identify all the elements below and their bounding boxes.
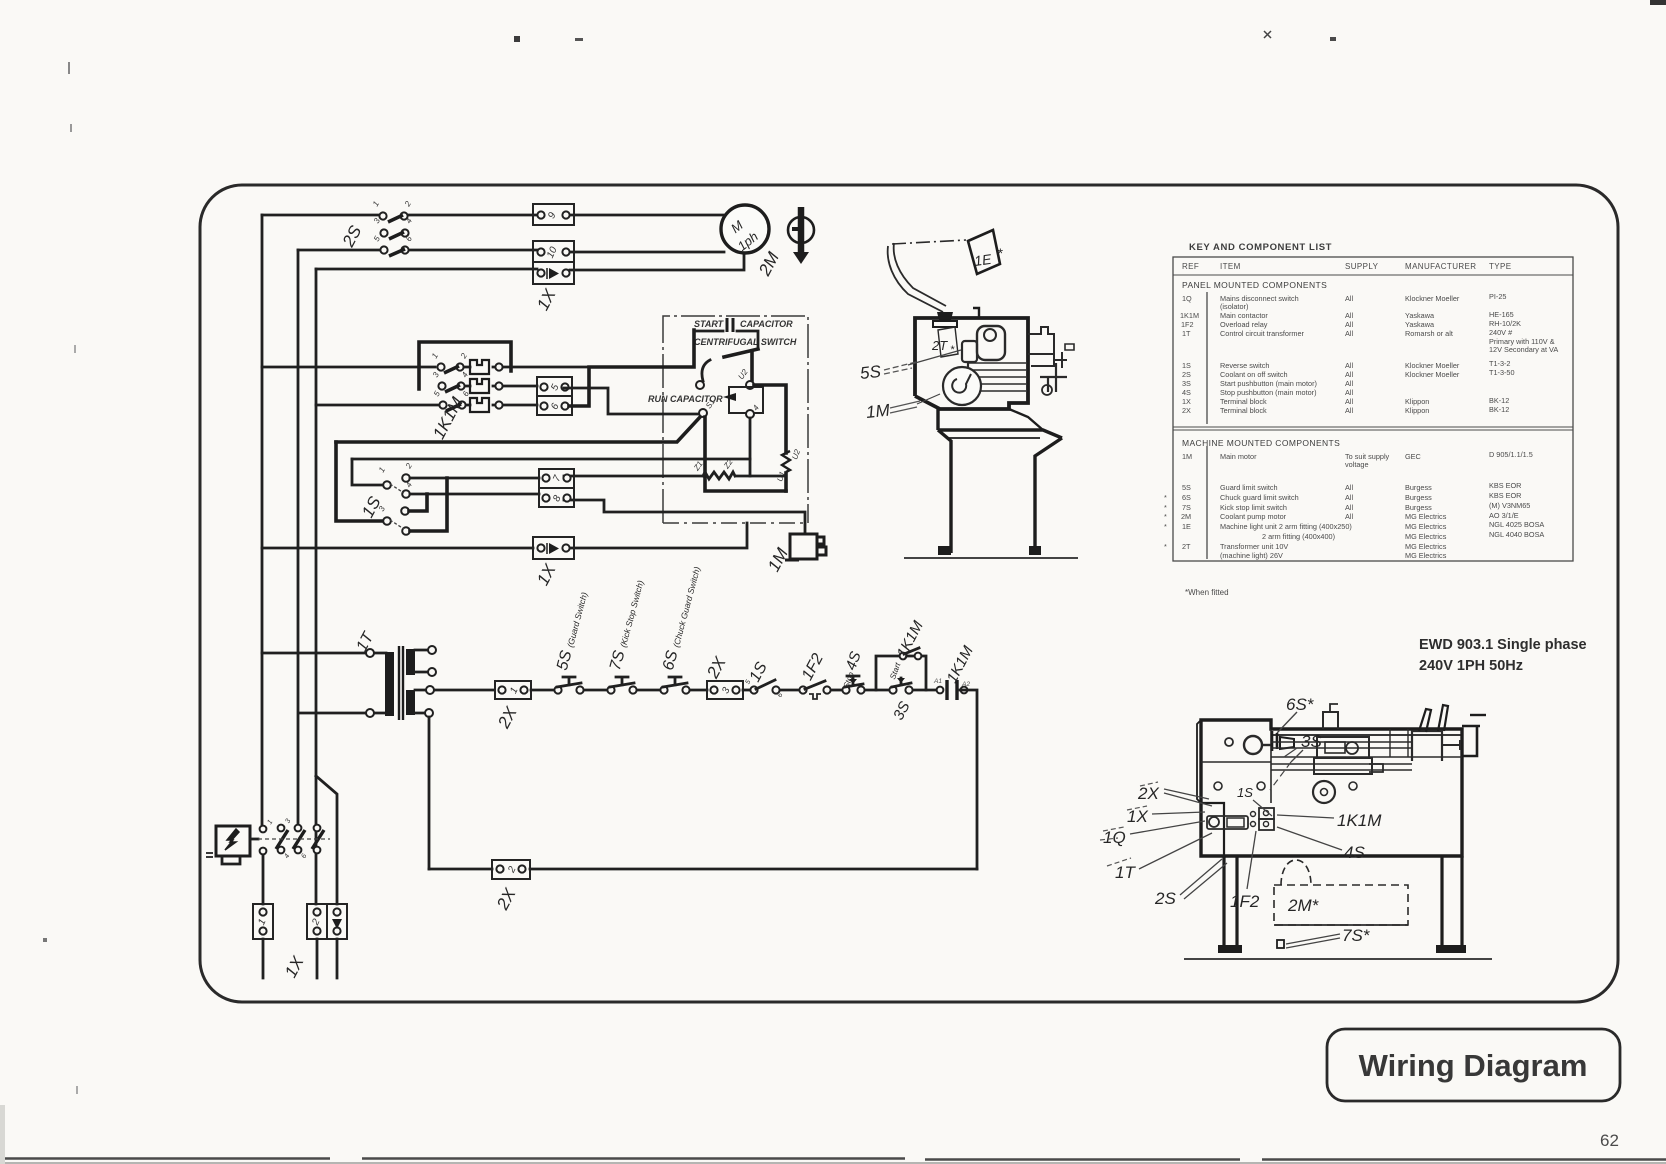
- svg-text:REF: REF: [1182, 262, 1199, 271]
- svg-text:1M: 1M: [1182, 452, 1192, 461]
- svg-text:All: All: [1345, 406, 1353, 415]
- svg-text:2X: 2X: [1182, 406, 1191, 415]
- svg-text:MANUFACTURER: MANUFACTURER: [1405, 262, 1476, 271]
- svg-text:*: *: [1164, 512, 1167, 521]
- svg-text:SUPPLY: SUPPLY: [1345, 262, 1379, 271]
- svg-text:HE-165: HE-165: [1489, 310, 1514, 319]
- svg-text:2S: 2S: [1154, 889, 1176, 908]
- svg-text:1T: 1T: [1182, 329, 1191, 338]
- svg-text:All: All: [1345, 493, 1353, 502]
- svg-text:ITEM: ITEM: [1220, 262, 1241, 271]
- svg-text:2X: 2X: [1137, 784, 1159, 803]
- svg-text:EWD 903.1 Single phase: EWD 903.1 Single phase: [1419, 637, 1587, 653]
- svg-text:PI-25: PI-25: [1489, 292, 1506, 301]
- svg-text:T1-3-50: T1-3-50: [1489, 368, 1515, 377]
- svg-text:BK-12: BK-12: [1489, 396, 1509, 405]
- svg-text:*: *: [1164, 493, 1167, 502]
- svg-text:KBS EOR: KBS EOR: [1489, 481, 1521, 490]
- svg-text:7S*: 7S*: [1342, 926, 1371, 945]
- svg-text:Yaskawa: Yaskawa: [1405, 320, 1435, 329]
- svg-text:MACHINE MOUNTED COMPONENTS: MACHINE MOUNTED COMPONENTS: [1182, 438, 1340, 448]
- svg-text:All: All: [1345, 512, 1353, 521]
- svg-text:3S: 3S: [1182, 379, 1191, 388]
- svg-text:NGL 4040 BOSA: NGL 4040 BOSA: [1489, 530, 1544, 539]
- svg-text:T1-3-2: T1-3-2: [1489, 359, 1511, 368]
- svg-text:Coolant on off switch: Coolant on off switch: [1220, 370, 1288, 379]
- svg-text:All: All: [1345, 388, 1353, 397]
- svg-text:Coolant pump motor: Coolant pump motor: [1220, 512, 1287, 521]
- svg-text:A2: A2: [961, 681, 970, 688]
- svg-text:(isolator): (isolator): [1220, 302, 1248, 311]
- svg-text:Yaskawa: Yaskawa: [1405, 311, 1435, 320]
- svg-text:Transformer unit 10V: Transformer unit 10V: [1220, 542, 1288, 551]
- svg-text:Main motor: Main motor: [1220, 452, 1257, 461]
- svg-text:D 905/1.1/1.5: D 905/1.1/1.5: [1489, 450, 1533, 459]
- svg-text:NGL 4025 BOSA: NGL 4025 BOSA: [1489, 520, 1544, 529]
- svg-text:Klockner Moeller: Klockner Moeller: [1405, 294, 1460, 303]
- svg-text:6S: 6S: [1182, 493, 1191, 502]
- svg-text:Burgess: Burgess: [1405, 483, 1432, 492]
- svg-text:5S: 5S: [859, 362, 882, 383]
- svg-text:2T: 2T: [931, 338, 948, 353]
- svg-text:Terminal block: Terminal block: [1220, 397, 1267, 406]
- svg-text:PANEL MOUNTED COMPONENTS: PANEL MOUNTED COMPONENTS: [1182, 280, 1327, 290]
- svg-text:CENTRIFUGAL SWITCH: CENTRIFUGAL SWITCH: [694, 337, 797, 347]
- svg-text:All: All: [1345, 397, 1353, 406]
- svg-text:6S*: 6S*: [1286, 695, 1315, 714]
- svg-text:1E: 1E: [1182, 522, 1191, 531]
- svg-text:(machine light) 26V: (machine light) 26V: [1220, 551, 1283, 560]
- svg-text:All: All: [1345, 320, 1353, 329]
- svg-text:Romarsh or alt: Romarsh or alt: [1405, 329, 1453, 338]
- svg-text:MG Electrics: MG Electrics: [1405, 512, 1447, 521]
- svg-text:*: *: [1164, 522, 1167, 531]
- svg-text:7S: 7S: [1182, 503, 1191, 512]
- svg-text:All: All: [1345, 379, 1353, 388]
- svg-text:1S: 1S: [1237, 785, 1253, 800]
- svg-text:Reverse switch: Reverse switch: [1220, 361, 1269, 370]
- svg-text:START: START: [694, 319, 725, 329]
- svg-text:RH-10/2K: RH-10/2K: [1489, 319, 1521, 328]
- svg-text:2S: 2S: [1182, 370, 1191, 379]
- svg-text:Klockner Moeller: Klockner Moeller: [1405, 370, 1460, 379]
- svg-text:voltage: voltage: [1345, 460, 1369, 469]
- svg-text:5S: 5S: [1182, 483, 1191, 492]
- svg-text:4S: 4S: [1344, 843, 1365, 862]
- svg-text:All: All: [1345, 361, 1353, 370]
- svg-text:1T: 1T: [1115, 863, 1136, 882]
- svg-text:1S: 1S: [1182, 361, 1191, 370]
- svg-text:Stop pushbutton (main motor): Stop pushbutton (main motor): [1220, 388, 1317, 397]
- svg-text:1E: 1E: [973, 251, 993, 269]
- svg-text:All: All: [1345, 503, 1353, 512]
- svg-text:*: *: [997, 245, 1003, 261]
- svg-text:Main contactor: Main contactor: [1220, 311, 1268, 320]
- svg-text:Start pushbutton (main motor): Start pushbutton (main motor): [1220, 379, 1317, 388]
- svg-text:All: All: [1345, 311, 1353, 320]
- svg-text:Kick stop limit switch: Kick stop limit switch: [1220, 503, 1287, 512]
- svg-text:1K1M: 1K1M: [1337, 811, 1382, 830]
- svg-text:Control circuit transformer: Control circuit transformer: [1220, 329, 1305, 338]
- svg-text:MG Electrics: MG Electrics: [1405, 551, 1447, 560]
- svg-text:4S: 4S: [1182, 388, 1191, 397]
- svg-text:MG Electrics: MG Electrics: [1405, 522, 1447, 531]
- svg-text:A1: A1: [933, 678, 942, 685]
- svg-text:BK-12: BK-12: [1489, 405, 1509, 414]
- svg-text:TYPE: TYPE: [1489, 262, 1512, 271]
- svg-text:240V #: 240V #: [1489, 328, 1513, 337]
- svg-text:1X: 1X: [1182, 397, 1191, 406]
- svg-text:62: 62: [1600, 1131, 1619, 1150]
- svg-text:2M: 2M: [1181, 512, 1191, 521]
- svg-text:Klockner Moeller: Klockner Moeller: [1405, 361, 1460, 370]
- svg-text:1M: 1M: [865, 401, 891, 422]
- svg-text:KEY AND COMPONENT LIST: KEY AND COMPONENT LIST: [1189, 242, 1332, 253]
- svg-text:All: All: [1345, 329, 1353, 338]
- svg-text:1F2: 1F2: [1181, 320, 1194, 329]
- svg-text:Chuck guard limit switch: Chuck guard limit switch: [1220, 493, 1299, 502]
- svg-text:3S: 3S: [1301, 732, 1322, 751]
- svg-text:MG Electrics: MG Electrics: [1405, 532, 1447, 541]
- svg-text:*: *: [1164, 503, 1167, 512]
- svg-text:*: *: [950, 344, 955, 356]
- svg-text:Klippon: Klippon: [1405, 406, 1429, 415]
- svg-text:1K1M: 1K1M: [1180, 311, 1199, 320]
- svg-text:All: All: [1345, 370, 1353, 379]
- svg-text:AO 3/1/E: AO 3/1/E: [1489, 511, 1519, 520]
- svg-text:Terminal block: Terminal block: [1220, 406, 1267, 415]
- svg-text:Overload relay: Overload relay: [1220, 320, 1268, 329]
- svg-text:Klippon: Klippon: [1405, 397, 1429, 406]
- svg-text:2 arm fitting (400x400): 2 arm fitting (400x400): [1262, 532, 1335, 541]
- svg-text:GEC: GEC: [1405, 452, 1421, 461]
- svg-text:2T: 2T: [1182, 542, 1191, 551]
- svg-text:All: All: [1345, 483, 1353, 492]
- svg-text:All: All: [1345, 294, 1353, 303]
- svg-text:KBS EOR: KBS EOR: [1489, 491, 1521, 500]
- svg-text:*When fitted: *When fitted: [1185, 588, 1229, 597]
- svg-text:1F2: 1F2: [1230, 892, 1260, 911]
- svg-text:1Q: 1Q: [1182, 294, 1192, 303]
- svg-text:*: *: [1164, 542, 1167, 551]
- svg-text:Machine light unit 2 arm fitti: Machine light unit 2 arm fitting (400x25…: [1220, 522, 1352, 531]
- svg-text:CAPACITOR: CAPACITOR: [740, 319, 793, 329]
- svg-text:Burgess: Burgess: [1405, 493, 1432, 502]
- svg-text:12V Secondary at VA: 12V Secondary at VA: [1489, 345, 1558, 354]
- svg-text:Burgess: Burgess: [1405, 503, 1432, 512]
- svg-text:240V 1PH 50Hz: 240V 1PH 50Hz: [1419, 658, 1523, 674]
- svg-text:MG Electrics: MG Electrics: [1405, 542, 1447, 551]
- svg-text:2M*: 2M*: [1287, 896, 1320, 915]
- svg-text:(M) V3NM65: (M) V3NM65: [1489, 501, 1530, 510]
- svg-text:Wiring Diagram: Wiring Diagram: [1359, 1048, 1588, 1083]
- svg-text:Guard limit switch: Guard limit switch: [1220, 483, 1278, 492]
